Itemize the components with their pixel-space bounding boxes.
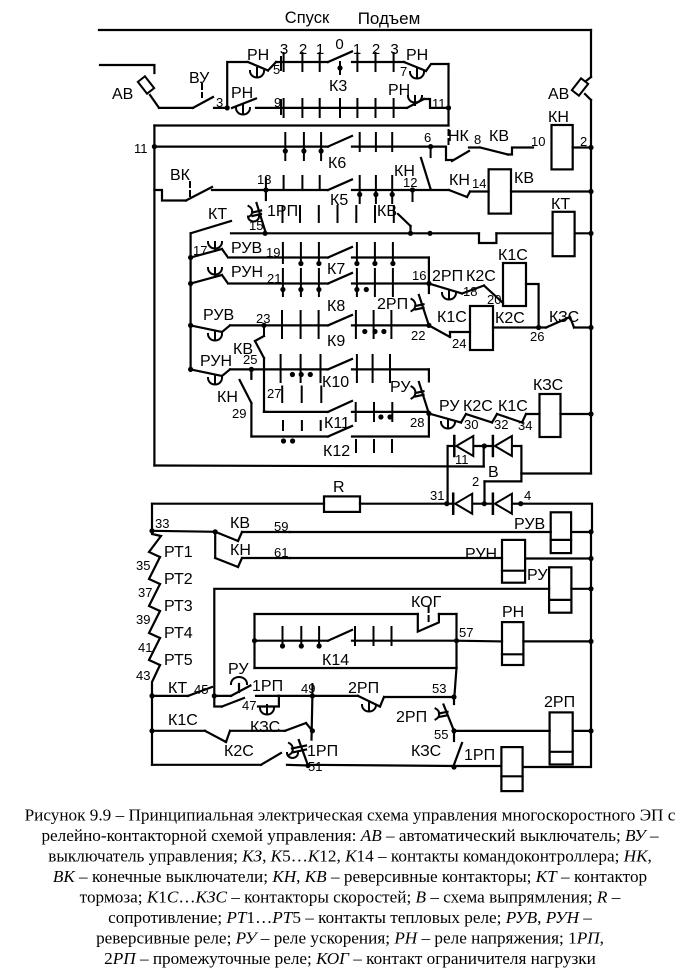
svg-text:РН: РН — [388, 82, 410, 99]
label АВ right — [548, 86, 569, 103]
label К2С b — [224, 743, 254, 760]
label 41 — [138, 640, 152, 655]
label ВК — [170, 167, 191, 184]
dot К11 c7 — [387, 414, 392, 419]
tick col6 К9 — [373, 311, 375, 338]
label 53 — [432, 681, 446, 696]
tick col3 К11 — [320, 387, 322, 403]
label КВ 25 — [233, 341, 253, 358]
wire lower left bus bottom — [151, 696, 153, 765]
svg-text:К8: К8 — [327, 298, 345, 315]
svg-text:1РП: 1РП — [252, 678, 283, 695]
svg-text:К7: К7 — [327, 261, 345, 278]
tick colD КТ — [337, 206, 339, 222]
tick col7 К9 — [390, 311, 392, 338]
label РН 5 — [247, 47, 269, 64]
switch К8 — [328, 273, 352, 284]
breaker AB right — [572, 77, 591, 100]
wire 2РП rung — [454, 730, 550, 732]
contact К1С 24 — [429, 325, 470, 337]
label КВ 8 — [489, 128, 509, 145]
tick col3 К5 — [319, 176, 321, 190]
label Подъем — [358, 9, 421, 28]
label 47 — [242, 698, 256, 713]
svg-text:43: 43 — [136, 668, 150, 683]
wire right bus 3 — [590, 192, 592, 236]
svg-text:РУ: РУ — [527, 567, 548, 584]
wire КТ rung — [231, 232, 265, 234]
wire К1С out — [526, 284, 539, 328]
label К1С b — [168, 712, 198, 729]
tick col7 К5 — [391, 176, 393, 203]
label К5 — [330, 192, 348, 209]
svg-text:К1С: К1С — [498, 398, 528, 415]
svg-text:3: 3 — [216, 95, 223, 110]
wire К14 box left — [253, 614, 255, 668]
node К3 pivot — [337, 62, 342, 74]
svg-text:К2С: К2С — [466, 268, 496, 285]
contact КВ 59 — [152, 531, 215, 532]
tick col6 К6 — [375, 133, 377, 151]
label 39 — [136, 612, 150, 627]
node 28 — [426, 411, 431, 416]
tick col3 К9 — [318, 311, 320, 338]
svg-text:2РП: 2РП — [396, 709, 427, 726]
label РУН 21 — [231, 264, 263, 281]
svg-text:30: 30 — [464, 417, 478, 432]
label 11 left — [134, 141, 148, 156]
label РУВ 23 — [203, 307, 234, 324]
wire КН61 rung — [290, 557, 502, 559]
wire row9 — [256, 107, 407, 109]
node КТ bus — [588, 231, 593, 236]
node 33 — [149, 528, 154, 533]
svg-text:К3: К3 — [329, 78, 347, 95]
wire to VU — [159, 107, 193, 109]
contact ВК — [154, 182, 212, 201]
wire К11 rung — [264, 411, 328, 413]
label 26 — [530, 329, 544, 344]
svg-text:реверсивные реле; РУ – реле ус: реверсивные реле; РУ – реле ускорения; Р… — [96, 928, 604, 947]
label 28 — [410, 415, 424, 430]
svg-text:сопротивление; РТ1…РТ5 – конта: сопротивление; РТ1…РТ5 – контакты теплов… — [108, 908, 592, 927]
svg-text:РУВ: РУВ — [231, 240, 262, 257]
svg-text:К2С: К2С — [224, 743, 254, 760]
svg-text:35: 35 — [136, 558, 150, 573]
wire bridge bottom — [447, 503, 521, 505]
wire right bus 6 — [590, 414, 592, 474]
tick col2 К5 — [301, 176, 303, 190]
label КЗС b — [250, 719, 280, 736]
wire inner top border — [154, 124, 448, 126]
tick col3 К8 — [318, 269, 320, 296]
tick col7 row9 — [393, 99, 395, 117]
wire right bus to KN row — [590, 100, 592, 147]
label positions 0 — [335, 36, 343, 53]
thermal РТ2 — [149, 557, 160, 584]
label РУН 25 — [200, 353, 232, 370]
label 8 — [474, 132, 481, 147]
wire К2С rung right — [308, 765, 501, 766]
svg-text:3: 3 — [280, 41, 288, 58]
dot К9 c7 — [381, 329, 386, 334]
node 16 — [426, 281, 431, 286]
tick col1 К8 — [282, 269, 284, 296]
wire К7 right — [352, 256, 429, 258]
dot К11 c6 — [378, 414, 383, 419]
svg-text:РУН: РУН — [200, 353, 232, 370]
svg-text:37: 37 — [138, 585, 152, 600]
svg-text:КТ: КТ — [168, 680, 187, 697]
wire bridge top — [448, 445, 522, 447]
label 3 — [216, 95, 223, 110]
svg-text:выключатель управления; КЗ, К5: выключатель управления; КЗ, К5…К12, К14 … — [48, 846, 652, 865]
label 14 — [472, 176, 486, 191]
node КВ-КТ — [408, 231, 413, 236]
label 57 — [459, 625, 473, 640]
label 27 — [267, 386, 281, 401]
tick col1 К12 — [282, 421, 284, 430]
switch К10 — [328, 359, 352, 369]
tick col3 row9 — [319, 99, 321, 117]
label ВУ — [189, 70, 210, 87]
node 23 — [261, 323, 266, 336]
dot К5 c7 — [390, 192, 395, 197]
tick col7 К12 — [391, 440, 393, 452]
tick col1 К14 — [282, 627, 284, 645]
svg-text:РУВ: РУВ — [514, 516, 545, 533]
svg-text:57: 57 — [459, 625, 473, 640]
tick col7 row5 — [393, 53, 395, 71]
tick col5 К8 — [356, 269, 358, 296]
wire К14 right — [352, 640, 457, 642]
contact КН 29 — [240, 369, 252, 436]
wire bridge right vert — [520, 446, 522, 481]
contact КВ 8 — [480, 148, 533, 155]
contact КЗС b — [230, 723, 312, 731]
tick col3 К12 — [320, 421, 322, 430]
node 21 — [188, 281, 193, 286]
label КВ 59 — [230, 515, 250, 532]
label КВ down — [377, 203, 397, 220]
svg-text:КВ: КВ — [377, 203, 397, 220]
label РН 11 — [388, 82, 410, 99]
tick colB КТ — [299, 206, 301, 222]
contact КТ 17 — [191, 221, 231, 258]
wire К7 rung — [230, 256, 328, 258]
contact РН 7 — [404, 62, 426, 79]
svg-text:11: 11 — [134, 141, 148, 156]
label РТ1 — [164, 544, 193, 561]
svg-text:КТ: КТ — [208, 206, 227, 223]
svg-text:0: 0 — [335, 36, 343, 53]
svg-text:16: 16 — [412, 268, 426, 283]
label 15 — [249, 218, 263, 233]
svg-text:К12: К12 — [323, 443, 350, 460]
contact КЗС 26 — [546, 317, 591, 328]
svg-text:34: 34 — [518, 418, 532, 433]
svg-text:РТ2: РТ2 — [164, 571, 193, 588]
svg-text:РТ1: РТ1 — [164, 544, 193, 561]
wire 47 rejoin — [256, 696, 279, 707]
coil КВ — [489, 169, 511, 213]
svg-text:1РП: 1РП — [307, 743, 338, 760]
label 30 — [464, 417, 478, 432]
svg-text:РУ: РУ — [228, 661, 249, 678]
label РУВ coil — [514, 516, 545, 533]
contact РУ 30 — [429, 414, 461, 429]
label НК — [448, 128, 470, 145]
dot К12 c2 — [290, 438, 295, 443]
wire КТ coil to bus — [575, 232, 591, 234]
wire bridge left vert — [447, 446, 449, 504]
node РУ bus — [588, 586, 593, 591]
wire К12 to node28 — [428, 414, 430, 437]
wire К6 rung — [154, 146, 328, 148]
switch К14 — [328, 630, 352, 641]
label КН coil — [548, 109, 569, 126]
label К1С 34 — [498, 398, 528, 415]
svg-text:К1С: К1С — [498, 247, 528, 264]
dot К6 c1 — [283, 148, 288, 153]
label К2С 18 — [466, 268, 496, 285]
wire К2С out — [493, 326, 546, 328]
wire К1С-КЗС rung — [152, 730, 205, 732]
label КН 61 — [230, 542, 251, 559]
wire К8 right — [352, 282, 429, 284]
node К2С-КЗС — [536, 325, 541, 330]
svg-text:59: 59 — [274, 519, 288, 534]
contact К1С b — [205, 731, 230, 742]
wire К7 drop — [428, 258, 430, 284]
coil 2РП — [550, 712, 573, 764]
label К10 — [322, 374, 349, 391]
coil РУ — [549, 567, 571, 612]
svg-text:К1С: К1С — [437, 309, 467, 326]
contact КЗС 55 — [454, 731, 463, 766]
label 2РП coil — [544, 694, 575, 711]
dot К6 c3 — [319, 148, 324, 153]
svg-text:РН: РН — [247, 47, 269, 64]
dot К6 c2 — [301, 148, 306, 153]
node 25 — [249, 367, 254, 379]
svg-text:КН: КН — [548, 109, 569, 126]
label 22 — [411, 328, 425, 343]
node 6 — [428, 144, 433, 157]
label РН coil — [502, 604, 524, 621]
wire К9 right — [352, 324, 429, 326]
contact К2С b — [261, 753, 281, 765]
tick col5 К5 — [359, 176, 361, 203]
label КН 14 — [449, 172, 470, 189]
contact РУ 47up — [214, 677, 250, 696]
label 19 — [266, 245, 280, 260]
tick col3 К14 — [318, 627, 320, 645]
contact КН 14 — [449, 190, 489, 197]
wire К12 rung — [251, 435, 328, 437]
contact РУВ 23 — [191, 325, 230, 340]
label КЗС 55 — [411, 743, 441, 760]
tick col2 row5 — [301, 53, 303, 71]
label 59 — [274, 519, 288, 534]
wire lower right bus 4 — [590, 641, 592, 731]
contact К1С 34 — [492, 414, 540, 423]
label 1РП 15 — [267, 203, 298, 220]
contact 1РП 15 — [248, 190, 266, 233]
svg-text:К1С: К1С — [168, 712, 198, 729]
thermal РТ5 — [149, 638, 160, 665]
label К1С 24 — [437, 309, 467, 326]
dot К8 c6 — [364, 287, 369, 292]
wire К14 box top — [255, 613, 418, 615]
tick col6 К8 — [374, 269, 376, 296]
tick col2 К11 — [301, 387, 303, 403]
label 34 — [518, 418, 532, 433]
node 53 — [451, 668, 456, 700]
svg-text:ВК: ВК — [170, 167, 191, 184]
dot К7 c3 — [316, 261, 321, 266]
dot К9 c5 — [362, 329, 367, 334]
node bridge bot mid — [482, 501, 487, 506]
label РТ4 — [164, 625, 193, 642]
svg-text:РН: РН — [406, 47, 428, 64]
thermal РТ1 — [149, 531, 161, 557]
svg-text:39: 39 — [136, 612, 150, 627]
svg-text:В: В — [488, 464, 499, 481]
tick col7 К8 — [392, 269, 394, 296]
coil К2С — [470, 306, 493, 350]
svg-text:41: 41 — [138, 640, 152, 655]
wire РУН to bus — [525, 557, 591, 559]
label К2С 32 — [463, 398, 493, 415]
wire К14 box right — [455, 614, 457, 668]
svg-text:11: 11 — [455, 452, 469, 467]
label 10 — [531, 134, 545, 149]
contact 1РП NC 51 — [287, 740, 311, 768]
svg-text:13: 13 — [257, 172, 271, 187]
svg-text:2РП: 2РП — [432, 268, 463, 285]
svg-text:26: 26 — [530, 329, 544, 344]
label 6 — [424, 130, 431, 145]
contact К2С 32 — [461, 414, 492, 423]
label К7 — [327, 261, 345, 278]
svg-text:КТ: КТ — [551, 196, 570, 213]
svg-text:К9: К9 — [327, 333, 345, 350]
label РН 9 — [231, 85, 253, 102]
wire lower right bus 5 — [523, 731, 591, 767]
dot К12 c1 — [281, 438, 286, 443]
wire right bus 4 — [590, 233, 592, 327]
svg-text:КН: КН — [217, 389, 238, 406]
tick col3 К10 — [320, 355, 322, 382]
tick col2 row9 — [301, 99, 303, 117]
label positions 3 — [280, 41, 288, 58]
tick col6 К12 — [373, 440, 375, 452]
wire КТ to coil — [496, 232, 552, 234]
switch К9 — [328, 315, 352, 325]
svg-text:КВ: КВ — [489, 128, 509, 145]
switch К6 — [328, 136, 352, 147]
coil 1РП — [501, 747, 522, 791]
tick col2 К6 — [303, 133, 305, 160]
svg-text:45: 45 — [194, 682, 208, 697]
label positions 3r — [390, 41, 398, 58]
contact КВ down — [398, 214, 411, 233]
label 21 — [267, 271, 281, 286]
label 2 bridge — [472, 474, 479, 489]
tick col2 К7 — [300, 243, 302, 263]
tick col2 К9 — [300, 311, 302, 338]
label РТ3 — [164, 598, 193, 615]
svg-text:15: 15 — [249, 218, 263, 233]
contact 2РП 18 — [429, 284, 462, 300]
label 18 — [463, 284, 477, 299]
tick col2 К8 — [300, 269, 302, 296]
contact РУВ 19 — [191, 242, 228, 258]
label РТ5 — [164, 652, 193, 669]
label 2РП NC 55 — [396, 709, 427, 726]
label КТ coil — [551, 196, 570, 213]
tick col5 row9 — [356, 99, 358, 117]
svg-text:КН: КН — [449, 172, 470, 189]
wire КВ59 rung — [290, 531, 551, 533]
tick col5 К6 — [359, 133, 361, 151]
switch ВУ — [193, 84, 213, 108]
dot К7 c7 — [390, 261, 395, 266]
tick colG КТ — [393, 206, 395, 222]
node 17 — [188, 255, 193, 260]
label 61 — [274, 545, 288, 560]
svg-text:2: 2 — [472, 474, 479, 489]
wire 2РП to bus — [573, 730, 591, 732]
svg-text:АВ: АВ — [112, 86, 133, 103]
node КЗС bus — [588, 325, 593, 330]
label 12 — [403, 175, 417, 190]
wire КВ coil to bus — [511, 190, 591, 192]
svg-text:61: 61 — [274, 545, 288, 560]
tick col4 row9 — [339, 99, 341, 117]
label К11 — [324, 415, 350, 432]
wire R row right — [360, 503, 447, 505]
label 11 diode — [455, 452, 469, 467]
wire К10 rung — [230, 368, 328, 370]
node 4 — [518, 501, 523, 506]
wire К14 box bottom — [255, 667, 457, 669]
label К9 — [327, 333, 345, 350]
switch К11 — [328, 401, 352, 412]
svg-text:РТ4: РТ4 — [164, 625, 193, 642]
tick col7 К7 — [392, 243, 394, 263]
label Спуск — [285, 9, 330, 27]
svg-text:АВ: АВ — [548, 86, 569, 103]
label РУН coil — [465, 546, 497, 563]
label 2 КН — [580, 134, 587, 149]
tick col3 К7 — [318, 243, 320, 263]
svg-text:29: 29 — [232, 406, 246, 421]
wire inner left bus — [190, 258, 192, 370]
node bridge top mid — [482, 443, 487, 448]
wire НК-КВ — [469, 146, 480, 148]
tick col5 К7 — [356, 243, 358, 263]
wire right bus 2 — [590, 148, 592, 193]
contact 2РП NC — [412, 284, 429, 326]
node 49 — [310, 684, 315, 699]
tick colF КТ — [374, 206, 376, 222]
thermal tail — [152, 665, 160, 696]
svg-text:КВ: КВ — [230, 515, 250, 532]
svg-text:РТ5: РТ5 — [164, 652, 193, 669]
wire stub 2 — [485, 481, 522, 503]
